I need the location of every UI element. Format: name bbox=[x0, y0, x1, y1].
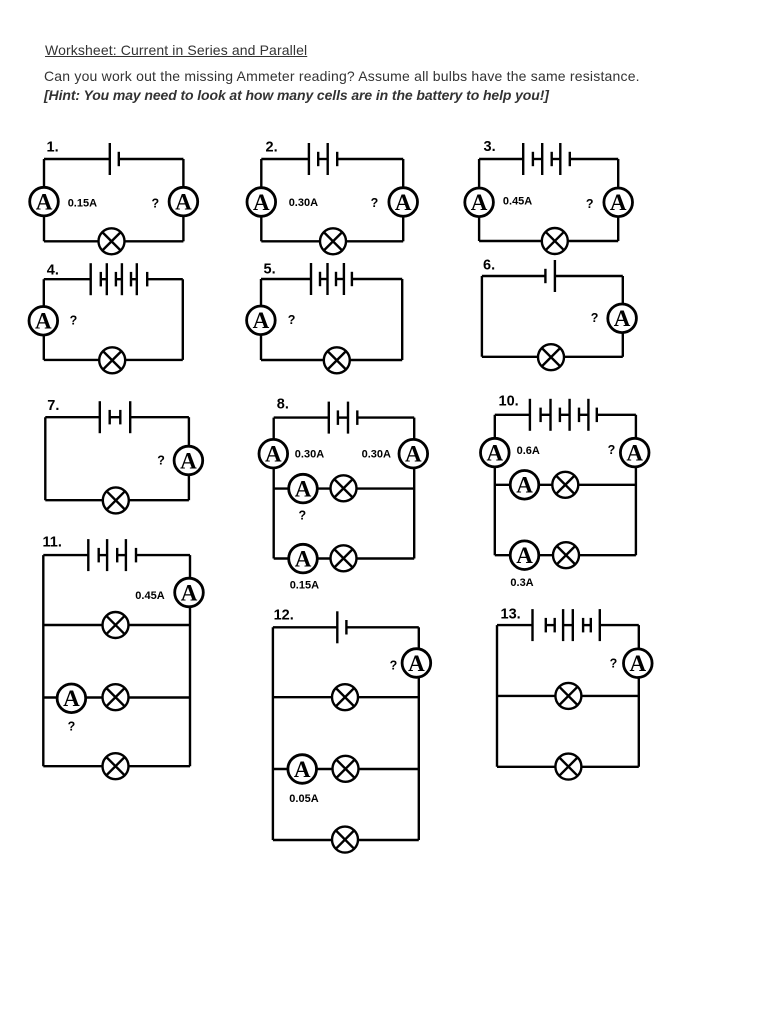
svg-text:A: A bbox=[35, 309, 52, 334]
svg-text:12.: 12. bbox=[274, 608, 294, 624]
svg-text:4.: 4. bbox=[47, 263, 59, 279]
svg-text:0.6A: 0.6A bbox=[517, 445, 540, 457]
svg-text:A: A bbox=[516, 473, 533, 498]
wire right branch trunk of circuit 8 bbox=[413, 454, 415, 559]
svg-text:?: ? bbox=[70, 314, 78, 328]
wire bottom of circuit 2 bbox=[261, 240, 403, 242]
svg-text:A: A bbox=[180, 448, 197, 473]
battery B12 (1 cell) bbox=[337, 611, 346, 643]
wire left branch trunk of circuit 8 bbox=[273, 454, 275, 559]
svg-text:3.: 3. bbox=[484, 139, 496, 155]
ammeter A12b (0.05A) bbox=[288, 755, 317, 784]
wire lower-left of circuit 1 bbox=[43, 202, 45, 242]
svg-text:A: A bbox=[614, 306, 631, 331]
svg-text:1.: 1. bbox=[47, 140, 59, 156]
battery B10 (4 cells) bbox=[530, 399, 597, 431]
svg-text:A: A bbox=[405, 442, 422, 467]
ammeter A1a (0.15A) bbox=[30, 187, 59, 216]
wire top of circuit 1 with battery gaps bbox=[44, 158, 183, 160]
ammeter A11a (0.45A) bbox=[175, 578, 204, 607]
svg-text:?: ? bbox=[586, 197, 594, 211]
wire middle branch of circuit 10 bbox=[495, 484, 636, 486]
battery B2 (2 cells) bbox=[309, 143, 337, 175]
bulb L11b bbox=[103, 684, 129, 710]
wire top of circuit 5 with battery gaps bbox=[261, 278, 402, 280]
svg-text:A: A bbox=[63, 686, 80, 711]
ammeter A7 (?) bbox=[174, 446, 203, 475]
wire right of circuit 2 bbox=[402, 159, 404, 202]
svg-text:A: A bbox=[181, 580, 198, 605]
wire right of circuit 7 bbox=[188, 417, 190, 460]
wire top of circuit 8 with battery gaps bbox=[274, 416, 415, 418]
wire bottom branch of circuit 10 bbox=[495, 554, 636, 556]
svg-text:0.3A: 0.3A bbox=[510, 577, 533, 589]
svg-text:?: ? bbox=[68, 720, 76, 734]
bulb L8a bbox=[331, 475, 357, 501]
wire left of circuit 7 bbox=[44, 417, 46, 500]
ammeter A2b (?) bbox=[389, 188, 418, 217]
wire right trunk of circuit 12 bbox=[418, 663, 420, 840]
ammeter A1b (?) bbox=[169, 187, 198, 216]
wire left of circuit 5 bbox=[260, 279, 262, 320]
wire right of circuit 10 bbox=[635, 415, 637, 453]
wire left of circuit 4 bbox=[43, 279, 45, 321]
wire branch 2 of circuit 12 bbox=[273, 768, 419, 770]
bulb L1 bbox=[99, 228, 125, 254]
wire bottom branch of circuit 13 bbox=[497, 766, 639, 768]
svg-text:A: A bbox=[516, 543, 533, 568]
wire lower-left of circuit 2 bbox=[260, 202, 262, 241]
ammeter A4 (?) bbox=[29, 307, 58, 336]
svg-text:A: A bbox=[626, 441, 643, 466]
ammeter A8b (0.30A) bbox=[399, 439, 428, 468]
svg-text:?: ? bbox=[298, 509, 306, 523]
wire bottom of circuit 4 bbox=[44, 359, 183, 361]
ammeter A5 (?) bbox=[247, 306, 276, 335]
svg-text:?: ? bbox=[608, 443, 616, 457]
wire right of circuit 5 bbox=[401, 279, 403, 360]
wire right branch trunk of circuit 10 bbox=[635, 453, 637, 556]
wire top of circuit 3 with battery gaps bbox=[479, 158, 618, 160]
wire bottom branch of circuit 12 bbox=[273, 839, 419, 841]
svg-text:A: A bbox=[253, 308, 270, 333]
battery B3 (3 cells) bbox=[523, 143, 570, 175]
ammeter A10a (0.6A) bbox=[481, 438, 510, 467]
bulb L12b bbox=[333, 756, 359, 782]
battery B6 (1 cell reversed) bbox=[545, 260, 555, 292]
svg-text:?: ? bbox=[157, 454, 165, 468]
battery B7 (2 opposing cells) bbox=[100, 401, 130, 433]
bulb L10b bbox=[553, 542, 579, 568]
wire right trunk of circuit 13 bbox=[638, 663, 640, 767]
svg-text:A: A bbox=[294, 757, 311, 782]
svg-text:0.30A: 0.30A bbox=[289, 197, 318, 209]
svg-text:?: ? bbox=[288, 313, 296, 327]
svg-text:0.05A: 0.05A bbox=[289, 793, 318, 805]
svg-text:6.: 6. bbox=[483, 258, 495, 274]
bulb L4 bbox=[99, 347, 125, 373]
wire right of circuit 4 bbox=[182, 279, 184, 360]
wire left of circuit 6 bbox=[481, 276, 483, 357]
ammeter A10d (0.3A) bbox=[510, 541, 539, 570]
wire lower-left of circuit 3 bbox=[478, 202, 480, 241]
wire right of circuit 12 bbox=[418, 627, 420, 663]
ammeter A8c (?) bbox=[289, 474, 318, 503]
wire right of circuit 8 bbox=[413, 418, 415, 454]
wire top of circuit 11 with battery gaps bbox=[43, 554, 190, 556]
wire top of circuit 7 with battery gaps bbox=[45, 416, 189, 418]
svg-text:A: A bbox=[610, 190, 627, 215]
battery B13 (4 alternating cells) bbox=[533, 609, 600, 641]
wire lower-right of circuit 7 bbox=[188, 461, 190, 501]
svg-text:11.: 11. bbox=[43, 535, 62, 551]
wire lower-right of circuit 3 bbox=[617, 202, 619, 241]
svg-text:10.: 10. bbox=[499, 394, 519, 410]
wire left of circuit 10 bbox=[494, 415, 496, 453]
svg-text:A: A bbox=[629, 651, 646, 676]
svg-text:5.: 5. bbox=[264, 262, 276, 278]
battery B4 (4 cells) bbox=[91, 263, 148, 295]
wire left of circuit 3 bbox=[478, 159, 480, 202]
wire left trunk of circuit 13 bbox=[496, 625, 498, 767]
wire right of circuit 1 bbox=[182, 159, 184, 202]
wire lower-right of circuit 6 bbox=[622, 318, 624, 357]
ammeter A11b (?) bbox=[57, 684, 86, 713]
svg-text:7.: 7. bbox=[47, 398, 59, 414]
ammeter A12a (?) bbox=[402, 649, 431, 678]
wire bottom of circuit 5 bbox=[261, 359, 402, 361]
wire branch 2 of circuit 11 bbox=[43, 696, 190, 698]
wire right trunk of circuit 11 bbox=[189, 593, 191, 767]
svg-text:?: ? bbox=[390, 658, 398, 672]
wire branch 1 of circuit 13 bbox=[497, 695, 639, 697]
battery B11 (3 cells) bbox=[88, 539, 136, 571]
wire branch 1 of circuit 11 bbox=[43, 624, 190, 626]
ammeter A10b (?) bbox=[620, 438, 649, 467]
svg-text:?: ? bbox=[371, 196, 379, 210]
svg-text:A: A bbox=[408, 651, 425, 676]
svg-text:?: ? bbox=[151, 197, 159, 211]
svg-text:A: A bbox=[295, 547, 312, 572]
svg-text:0.15A: 0.15A bbox=[290, 580, 319, 592]
wire top of circuit 10 with battery gaps bbox=[495, 414, 636, 416]
wire middle branch of circuit 8 bbox=[274, 487, 415, 489]
bulb L13b bbox=[555, 754, 581, 780]
wire right of circuit 11 bbox=[189, 555, 191, 592]
bulb L13a bbox=[555, 683, 581, 709]
ammeter A10c bbox=[510, 471, 539, 500]
wire left trunk of circuit 11 bbox=[42, 555, 44, 766]
wire lower-left of circuit 5 bbox=[260, 320, 262, 360]
svg-text:0.30A: 0.30A bbox=[362, 449, 391, 461]
wire lower-left of circuit 4 bbox=[43, 321, 45, 360]
svg-text:2.: 2. bbox=[266, 140, 278, 156]
wire top of circuit 12 with battery gaps bbox=[273, 626, 419, 628]
svg-text:?: ? bbox=[591, 311, 599, 325]
battery B5 (3 cells) bbox=[311, 263, 352, 295]
svg-text:0.45A: 0.45A bbox=[503, 196, 532, 208]
svg-text:A: A bbox=[471, 190, 488, 215]
battery B8 (2 cells) bbox=[329, 402, 358, 434]
wire left of circuit 2 bbox=[260, 159, 262, 202]
svg-text:A: A bbox=[486, 441, 503, 466]
ammeter A8d (0.15A) bbox=[289, 544, 318, 573]
svg-text:A: A bbox=[36, 190, 53, 215]
wire lower-right of circuit 1 bbox=[182, 202, 184, 242]
svg-text:A: A bbox=[253, 190, 270, 215]
battery B1 (1 cell) bbox=[110, 143, 119, 175]
ammeter A3b (?) bbox=[604, 188, 633, 217]
wire right of circuit 13 bbox=[638, 625, 640, 663]
svg-text:A: A bbox=[295, 477, 312, 502]
bulb L5 bbox=[324, 347, 350, 373]
svg-text:A: A bbox=[395, 190, 412, 215]
bulb L7 bbox=[103, 487, 129, 513]
svg-text:?: ? bbox=[610, 657, 618, 671]
wire bottom of circuit 3 bbox=[479, 240, 618, 242]
ammeter A8a (0.30A) bbox=[259, 439, 288, 468]
bulb L2 bbox=[320, 228, 346, 254]
wire left trunk of circuit 12 bbox=[272, 627, 274, 840]
svg-text:A: A bbox=[265, 442, 282, 467]
svg-text:13.: 13. bbox=[501, 607, 521, 623]
bulb L12c bbox=[332, 827, 358, 853]
svg-text:A: A bbox=[175, 190, 192, 215]
bulb L6 bbox=[538, 344, 564, 370]
wire left of circuit 1 bbox=[43, 159, 45, 202]
svg-text:8.: 8. bbox=[277, 397, 289, 413]
bulb L3 bbox=[542, 228, 568, 254]
wire top of circuit 6 with battery gaps bbox=[482, 275, 623, 277]
wire lower-right of circuit 2 bbox=[402, 202, 404, 241]
ammeter A2a (0.30A) bbox=[247, 188, 276, 217]
bulb L12a bbox=[332, 684, 358, 710]
ammeter A13 (?) bbox=[624, 649, 653, 678]
wire left of circuit 8 bbox=[273, 418, 275, 454]
wire branch 1 of circuit 12 bbox=[273, 696, 419, 698]
bulb L11a bbox=[103, 612, 129, 638]
wire bottom of circuit 6 bbox=[482, 356, 623, 358]
wire bottom of circuit 7 bbox=[45, 499, 189, 501]
ammeter A3a (0.45A) bbox=[465, 188, 494, 217]
wire right of circuit 3 bbox=[617, 159, 619, 202]
wire right of circuit 6 bbox=[622, 276, 624, 318]
wire bottom branch of circuit 8 bbox=[274, 557, 415, 559]
svg-text:0.15A: 0.15A bbox=[68, 198, 97, 210]
svg-text:0.30A: 0.30A bbox=[295, 449, 324, 461]
bulb L8b bbox=[331, 545, 357, 571]
bulb L10a bbox=[552, 472, 578, 498]
wire left branch trunk of circuit 10 bbox=[494, 453, 496, 556]
svg-text:0.45A: 0.45A bbox=[135, 590, 164, 602]
ammeter A6 (?) bbox=[608, 304, 637, 333]
wire bottom of circuit 1 bbox=[44, 240, 183, 242]
wire bottom branch of circuit 11 bbox=[43, 765, 190, 767]
wire top of circuit 4 with battery gaps bbox=[44, 278, 183, 280]
wire top of circuit 13 with battery gaps bbox=[497, 624, 639, 626]
bulb L11c bbox=[103, 753, 129, 779]
wire top of circuit 2 with battery gaps bbox=[261, 158, 403, 160]
